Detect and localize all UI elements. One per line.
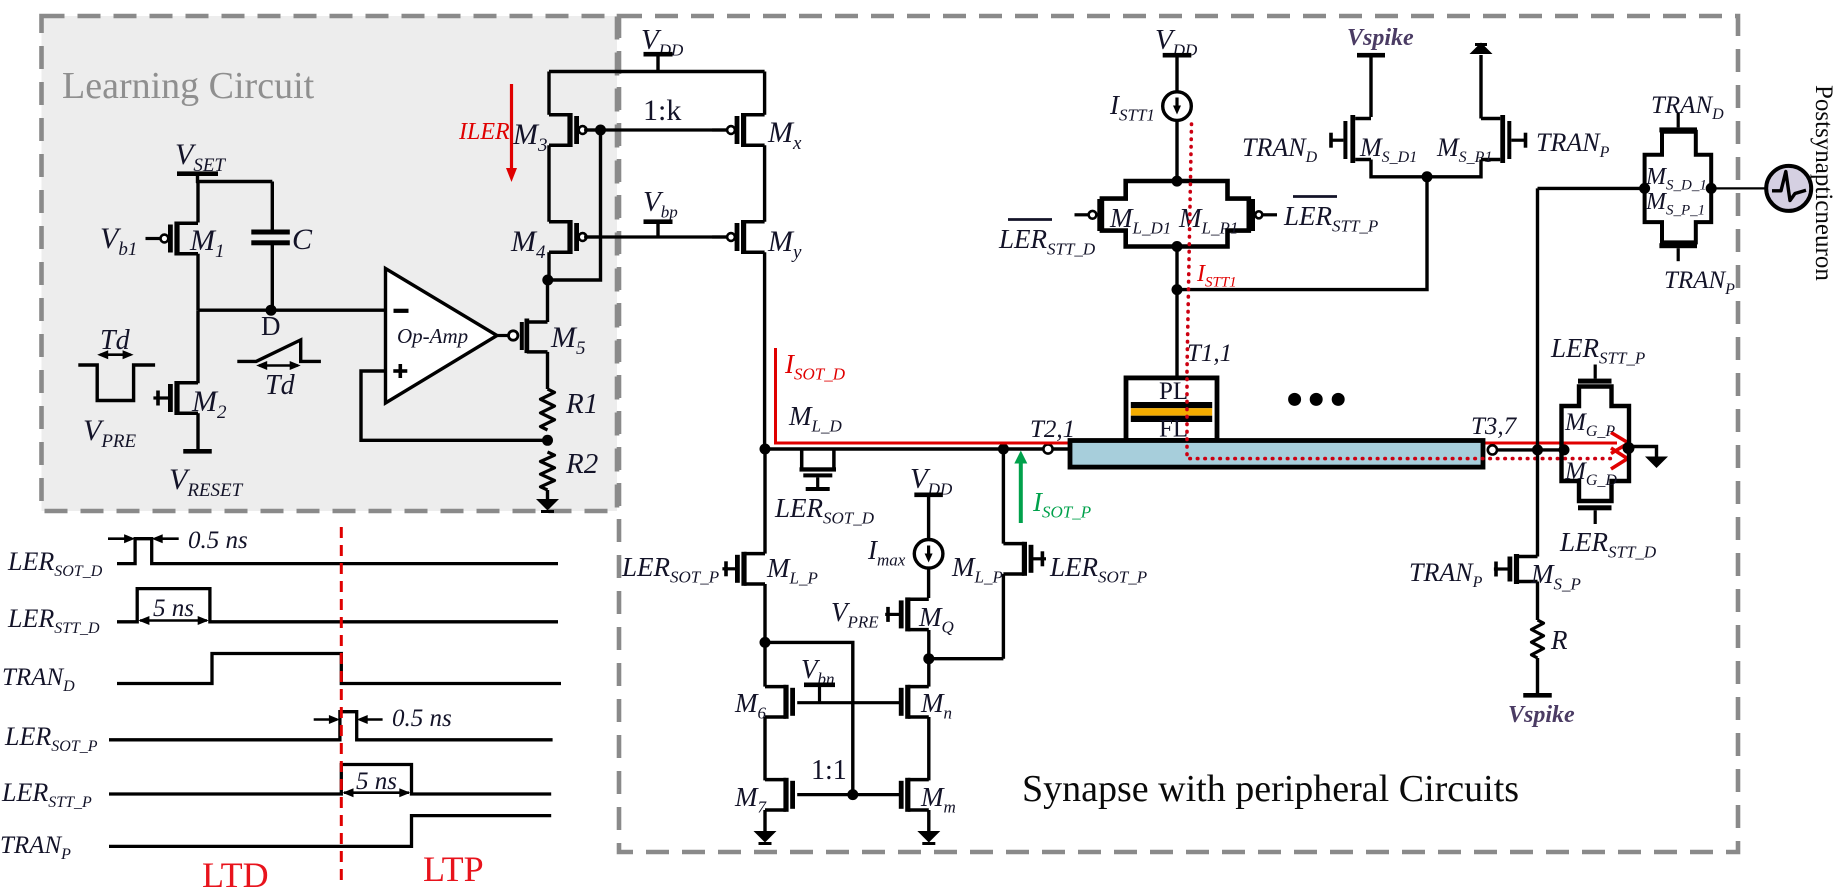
svg-text:TRANP: TRANP [0,832,71,863]
wire M3 gate to Mx gate [584,128,730,131]
resistor R1 [541,389,555,430]
svg-text:Vspike: Vspike [1508,702,1575,728]
svg-text:0.5 ns: 0.5 ns [392,705,452,732]
wire My branch down [763,449,766,554]
transistor M3 [547,72,550,115]
wire op-amp feedback to plus input [361,371,548,440]
node TG bottom [1172,241,1183,252]
red dashed LTD/LTP divider [340,527,343,882]
svg-text:Td: Td [265,370,296,401]
wire TG right to neuron [1706,183,1717,194]
svg-text:TRANP: TRANP [1409,558,1483,591]
current source I_max [914,540,943,569]
svg-text:TRANP: TRANP [1536,128,1610,161]
svg-text:5 ns: 5 ns [356,768,397,795]
transistor M7 [765,778,786,782]
terminal Vspike bottom [1536,658,1539,693]
wire gate feedback M3-M4 [548,130,601,280]
transistor Mn [908,685,929,689]
svg-text:TRANP: TRANP [1664,267,1735,298]
svg-text:R: R [1550,625,1568,655]
transistor M_L_D [800,449,804,468]
node mirror input [760,637,771,648]
transistor M_Q [908,597,929,601]
svg-text:Op-Amp: Op-Amp [397,324,468,348]
postsynaptic neuron symbol [1766,166,1811,211]
svg-text:ILER: ILER [458,119,510,145]
terminal T2,1 [1043,444,1052,453]
svg-text:Postsynapticneuron: Postsynapticneuron [1810,85,1837,281]
node TG right output [1623,442,1635,454]
SOT channel bar [1070,441,1483,468]
transmission gate M_S_D_1 M_S_P_1 [1645,132,1712,243]
current source I_STT1 [1163,92,1192,121]
wire M7 gate to Mm gate [797,793,900,796]
op-amp U1 [386,269,498,404]
learning circuit boundary box [42,16,618,511]
wire to MTJ [1175,290,1178,380]
wire M6 gate to Mn gate [797,701,900,704]
svg-text:LTP: LTP [423,849,484,889]
svg-text:Synapse with peripheral Circu: Synapse with peripheral Circuits [1022,768,1519,810]
svg-text:T1,1: T1,1 [1187,340,1232,367]
wire SOT line left [765,447,1044,450]
ellipsis dots [1288,393,1301,406]
svg-text:LTD: LTD [202,855,269,890]
transistor M_S_P [1517,555,1538,559]
svg-text:Vspike: Vspike [1347,25,1414,51]
svg-text:1:k: 1:k [643,94,681,127]
transistor M_L_P right [1002,449,1005,544]
transistor M5 [520,322,524,350]
node My drain [760,444,771,455]
capacitor C [271,182,274,230]
node STT branch [1172,284,1183,295]
svg-text:R1: R1 [565,388,598,420]
wire M4 gate to My gate [584,235,730,238]
transistor Mm [908,778,929,782]
ground right of M_G [1645,457,1668,469]
op-amp output bubble [497,334,508,337]
wire to mirror gate [765,642,853,794]
red arrow ILER [510,84,513,170]
transistor Mx [763,72,766,115]
node MQ source [923,653,934,664]
node D [198,309,386,312]
ground Mm [917,831,940,843]
Td pulse waveform [78,365,155,401]
transistor M1 [196,182,199,223]
ground M7 [754,831,777,843]
top rail VDD [549,70,765,74]
transistor M_L_P left [744,552,765,556]
wire MQ to M_L_P right [929,657,1004,660]
ground learning circuit [546,490,549,500]
transistor M_S_P1 [1500,115,1505,163]
synapse boundary box [619,16,1738,852]
supply V_RESET [183,449,212,454]
transistor M2 [196,310,199,383]
wire to ground right [1629,447,1657,458]
terminal T3,7 [1488,445,1497,454]
svg-text:5 ns: 5 ns [153,595,194,622]
node T2,1 junction [998,444,1009,455]
red dotted current path I_STT [1187,124,1616,459]
transistor My [744,220,765,224]
svg-text:Td: Td [100,325,131,356]
Td ramp waveform [237,340,321,362]
red current path I_SOT_D [776,348,1618,443]
supply arrow M_S_P1 [1470,43,1493,55]
node R1-R2 [542,435,553,446]
svg-text:C: C [292,223,313,256]
transmission gate M_G_P M_G_D [1562,387,1630,502]
wire to transmission gate [1175,120,1178,183]
svg-text:1:1: 1:1 [811,755,847,786]
transmission gate M_L_D1 M_L_P1 [1102,181,1249,247]
node M_S sources [1422,171,1433,182]
svg-text:PL: PL [1159,378,1188,405]
transistor M4 [549,220,570,224]
svg-text:R2: R2 [565,448,598,480]
svg-text:0.5 ns: 0.5 ns [188,527,248,554]
svg-text:D: D [261,311,281,341]
MTJ stack PL/FL [1126,378,1217,441]
node M5 drain [542,275,553,286]
resistor R2 [541,452,555,490]
svg-text:Learning Circuit: Learning Circuit [62,65,315,107]
resistor R [1532,620,1544,658]
wire TG left [1538,187,1645,190]
wire M_S TG to T3,7 vertical [1536,188,1539,556]
green arrow I_SOT_P [1019,461,1023,523]
wire V_SET node [196,180,272,183]
transistor M_S_D1 [1350,115,1355,163]
wire to M_S pair [1177,177,1427,290]
transistor M6 [765,685,786,689]
svg-text:T3,7: T3,7 [1471,413,1518,440]
